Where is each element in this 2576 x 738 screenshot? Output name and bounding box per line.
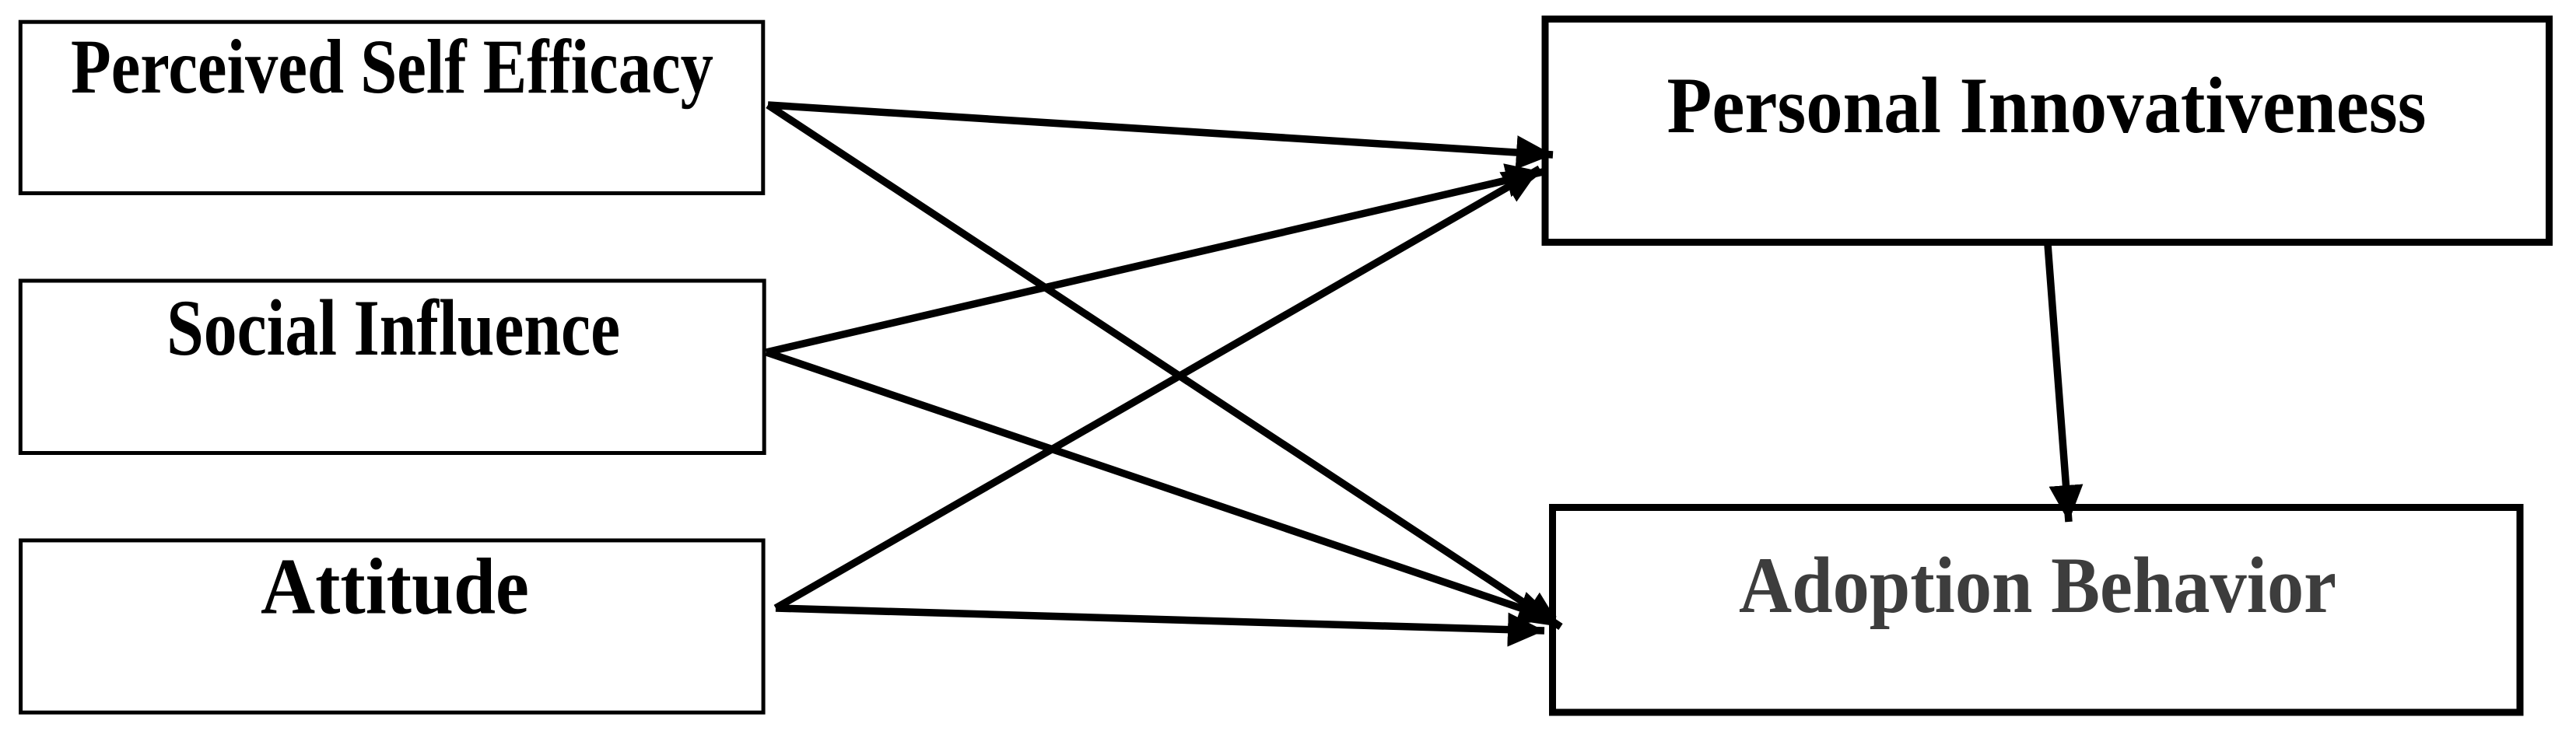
box Social Influence — [20, 281, 764, 453]
svg-text:Perceived Self Efficacy: Perceived Self Efficacy — [71, 23, 713, 110]
box Adoption Behavior — [1553, 508, 2521, 713]
svg-text:Adoption Behavior: Adoption Behavior — [1739, 541, 2336, 630]
svg-text:Attitude: Attitude — [261, 542, 529, 631]
arrow Personal Innovativeness to Adoption Behavior — [2048, 244, 2069, 522]
svg-text:Social Influence: Social Influence — [166, 284, 620, 372]
arrow Social Influence to Personal Innovativeness — [766, 172, 1543, 352]
arrow Perceived Self Efficacy to Personal Innovativeness — [768, 105, 1553, 155]
arrow Perceived Self Efficacy to Adoption Behavior — [768, 105, 1561, 627]
box Perceived Self Efficacy — [20, 22, 763, 193]
svg-text:Personal Innovativeness: Personal Innovativeness — [1667, 61, 2427, 150]
arrow Attitude to Personal Innovativeness — [776, 169, 1540, 608]
arrow Attitude to Adoption Behavior — [776, 608, 1544, 631]
box Personal Innovativeness — [1545, 19, 2550, 243]
box Attitude — [21, 540, 764, 712]
arrow Social Influence to Adoption Behavior — [766, 352, 1555, 620]
